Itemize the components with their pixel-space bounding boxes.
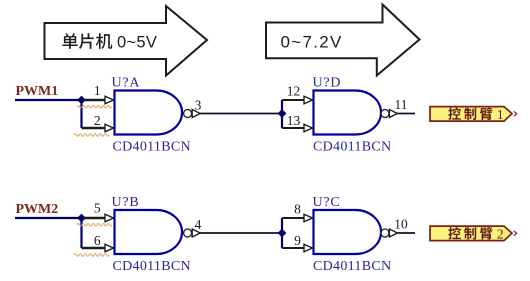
NAND gate U?A	[115, 91, 183, 135]
wire PWM2	[15, 217, 82, 219]
svg-text:U?A: U?A	[112, 76, 141, 91]
junction U?C inputs	[278, 229, 287, 238]
svg-text:3: 3	[195, 98, 202, 113]
svg-text:1: 1	[497, 107, 504, 122]
junction PWM1 split	[77, 96, 86, 105]
port 控制臂2	[430, 226, 512, 241]
wire drop to pin 6	[80, 218, 82, 248]
pin 1	[105, 96, 114, 104]
svg-text:CD4011BCN: CD4011BCN	[113, 259, 191, 274]
pin 13	[304, 124, 313, 132]
svg-text:4: 4	[195, 217, 202, 232]
output bubble U?C	[381, 229, 389, 237]
wire U?A out to junction	[200, 113, 282, 115]
NAND gate U?B	[115, 210, 183, 254]
ERC marker under pin 6	[74, 254, 109, 257]
arrow1 text 单片机 0~5V	[62, 33, 157, 51]
svg-text:CD4011BCN: CD4011BCN	[313, 140, 391, 155]
wire U?C out	[398, 232, 415, 234]
pin 5	[105, 214, 114, 222]
svg-text:PWM2: PWM2	[16, 202, 59, 217]
output bubble U?D	[381, 110, 389, 118]
pin 6	[105, 244, 114, 252]
wire PWM1	[15, 99, 82, 101]
svg-text:2: 2	[94, 113, 101, 128]
pin 4	[192, 229, 200, 237]
pin 2	[105, 124, 114, 132]
wire to pin 13	[281, 114, 283, 129]
ERC marker under pin 2	[74, 134, 109, 137]
svg-text:9: 9	[294, 233, 301, 248]
svg-text:PWM1: PWM1	[16, 84, 59, 99]
wire U?B out to junction	[200, 232, 282, 234]
ERC marker under pin 5	[77, 224, 112, 227]
output bubble U?B	[184, 229, 192, 237]
junction U?D inputs	[278, 109, 287, 118]
wire to pin 9	[281, 233, 283, 248]
pin 9	[304, 244, 313, 252]
svg-text:12: 12	[287, 84, 301, 99]
svg-text:5: 5	[94, 201, 101, 216]
port tick	[514, 231, 517, 236]
pin 10	[389, 229, 397, 237]
wire to pin 12	[281, 100, 283, 114]
wire drop to pin 2	[80, 100, 82, 128]
svg-text:CD4011BCN: CD4011BCN	[113, 140, 191, 155]
svg-text:CD4011BCN: CD4011BCN	[313, 259, 391, 274]
pin 12	[304, 96, 313, 104]
svg-text:2: 2	[497, 226, 504, 241]
svg-text:U?C: U?C	[313, 195, 341, 210]
svg-text:0~7.2V: 0~7.2V	[281, 33, 343, 52]
block arrow: MCU 0~5V	[45, 6, 208, 76]
block arrow: 0~7.2V	[266, 5, 420, 76]
port 控制臂1	[430, 107, 512, 122]
pin 8	[304, 214, 313, 222]
svg-text:1: 1	[94, 83, 101, 98]
svg-text:8: 8	[294, 202, 301, 217]
svg-text:U?D: U?D	[313, 76, 342, 91]
wire to pin 5	[83, 217, 105, 219]
svg-text:11: 11	[395, 97, 408, 112]
pin 3	[192, 110, 200, 118]
svg-text:U?B: U?B	[112, 195, 140, 210]
ERC marker under pin 1	[77, 106, 112, 109]
NAND gate U?C	[314, 210, 382, 254]
svg-text:6: 6	[94, 233, 101, 248]
wire U?D out	[398, 113, 415, 115]
wire to pin 8	[281, 218, 283, 233]
junction PWM2 split	[77, 214, 86, 223]
output bubble U?A	[184, 110, 192, 118]
svg-text:0~5V: 0~5V	[117, 34, 157, 52]
wire to pin 1	[83, 99, 105, 101]
pin 11	[389, 110, 397, 118]
port tick	[514, 111, 517, 116]
svg-text:10: 10	[394, 217, 408, 232]
NAND gate U?D	[314, 91, 382, 135]
svg-text:13: 13	[287, 113, 301, 128]
